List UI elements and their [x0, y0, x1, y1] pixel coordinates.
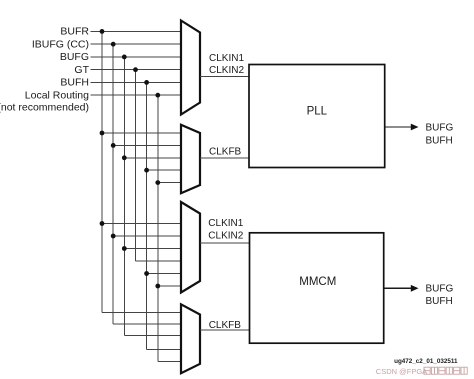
- junction dot v1/M2 branch: [100, 131, 105, 136]
- wire IBUFG row to mux M1: [91, 43, 182, 45]
- svg-text:BUFH: BUFH: [426, 296, 453, 307]
- junction dot v5/M2 branch: [144, 168, 149, 173]
- junction dot v5/M3 branch: [144, 271, 149, 276]
- svg-text:CLKIN2: CLKIN2: [208, 230, 243, 241]
- junction dot v2/M3 branch: [111, 234, 116, 239]
- junction dot v1/M3 branch: [100, 221, 105, 226]
- svg-text:BUFH: BUFH: [60, 77, 89, 89]
- wire vertical bus v1 (BUFR): [101, 31, 103, 312]
- wire v1 branch to mux M3: [102, 223, 181, 225]
- wire v4 elbow to mux M3: [136, 260, 182, 262]
- svg-text:BUFG: BUFG: [426, 123, 454, 134]
- svg-text:BUFG: BUFG: [60, 51, 89, 63]
- wire mux M2 output to PLL CLKFB: [200, 157, 249, 159]
- mux M4 MMCM feedback select: [181, 304, 200, 373]
- svg-text:BUFH: BUFH: [426, 135, 453, 146]
- wire v2 branch to mux M2: [113, 144, 181, 146]
- svg-text:CLKFB: CLKFB: [209, 320, 242, 331]
- wire v3 branch to mux M3: [124, 248, 181, 250]
- wire v2 elbow to mux M4: [113, 323, 181, 325]
- junction dot v6/M2 branch: [155, 180, 160, 185]
- wire v1 branch to mux M2: [102, 132, 181, 134]
- wire v2 branch to mux M3: [113, 235, 181, 237]
- wire v6 elbow to mux M4: [158, 361, 181, 363]
- wire PLL output arrow: [385, 126, 412, 128]
- wire v3 branch to mux M2: [124, 157, 181, 159]
- wire GT row to mux M1: [91, 69, 182, 71]
- svg-text:CLKIN2: CLKIN2: [209, 65, 244, 76]
- svg-text:BUFG: BUFG: [426, 283, 454, 294]
- svg-text:IBUFG (CC): IBUFG (CC): [32, 38, 89, 50]
- wire v5 branch to mux M2: [147, 169, 181, 171]
- junction dot v1/BUFR row: [100, 29, 105, 34]
- wire v6 branch to mux M3: [158, 285, 181, 287]
- wire BUFH row to mux M1: [91, 81, 182, 83]
- junction dot v3/BUFG row: [122, 55, 127, 60]
- wire vertical bus v2 (IBUFG): [112, 44, 114, 324]
- svg-text:CLKIN1: CLKIN1: [208, 218, 243, 229]
- svg-text:Local Routing: Local Routing: [25, 89, 89, 101]
- svg-text:CLKFB: CLKFB: [209, 147, 242, 158]
- wire v1 elbow to mux M4: [102, 311, 181, 313]
- svg-text:BUFR: BUFR: [60, 26, 89, 38]
- wire BUFR row to mux M1: [91, 30, 182, 32]
- junction dot v3/M2 branch: [122, 155, 127, 160]
- junction dot v2/M2 branch: [111, 143, 116, 148]
- svg-text:ug472_c2_01_032511: ug472_c2_01_032511: [394, 358, 458, 365]
- mux M1 PLL clock-input select: [181, 21, 200, 115]
- junction dot v2/IBUFG row: [111, 42, 116, 47]
- block U2 MMCM: [250, 233, 384, 343]
- svg-text:PLL: PLL: [307, 106, 328, 118]
- svg-text:CSDN @FPGA: CSDN @FPGA: [376, 367, 427, 376]
- wire vertical bus v5 (BUFH): [146, 82, 148, 349]
- wire v6 branch to mux M2: [158, 182, 181, 184]
- watermark CSDN: [376, 367, 467, 376]
- wire mux M1 output to PLL CLKIN: [200, 76, 249, 78]
- wire BUFG row to mux M1: [91, 56, 182, 58]
- wire mux M3 output to MMCM CLKIN: [200, 242, 250, 244]
- junction dot v6/M3 branch: [155, 284, 160, 289]
- wire v3 elbow to mux M4: [124, 335, 181, 337]
- arrowhead PLL output: [411, 124, 419, 131]
- svg-text:MMCM: MMCM: [299, 276, 336, 288]
- svg-text:(not recommended): (not recommended): [0, 101, 89, 113]
- svg-text:CLKIN1: CLKIN1: [209, 53, 244, 64]
- wire vertical bus v4 (GT): [135, 70, 137, 261]
- mux M3 MMCM clock-input select: [181, 202, 200, 293]
- block U1 PLL: [249, 65, 385, 168]
- wire MMCM output arrow: [384, 287, 412, 289]
- wire Local Routing row to mux M1: [91, 94, 182, 96]
- wire vertical bus v3 (BUFG): [123, 57, 125, 336]
- junction dot v5/BUFH row: [144, 80, 149, 85]
- junction dot v3/M3 branch: [122, 246, 127, 251]
- mux M2 PLL feedback select: [181, 125, 200, 193]
- junction dot v6/Local Routing row: [155, 93, 160, 98]
- arrowhead MMCM output: [411, 285, 419, 292]
- wire v5 branch to mux M3: [147, 273, 181, 275]
- svg-text:GT: GT: [74, 64, 89, 76]
- wire vertical bus v6 (Local Routing): [157, 95, 159, 362]
- wire mux M4 output to MMCM CLKFB: [200, 329, 250, 331]
- wire v5 elbow to mux M4: [147, 348, 181, 350]
- junction dot v4/GT row: [133, 67, 138, 72]
